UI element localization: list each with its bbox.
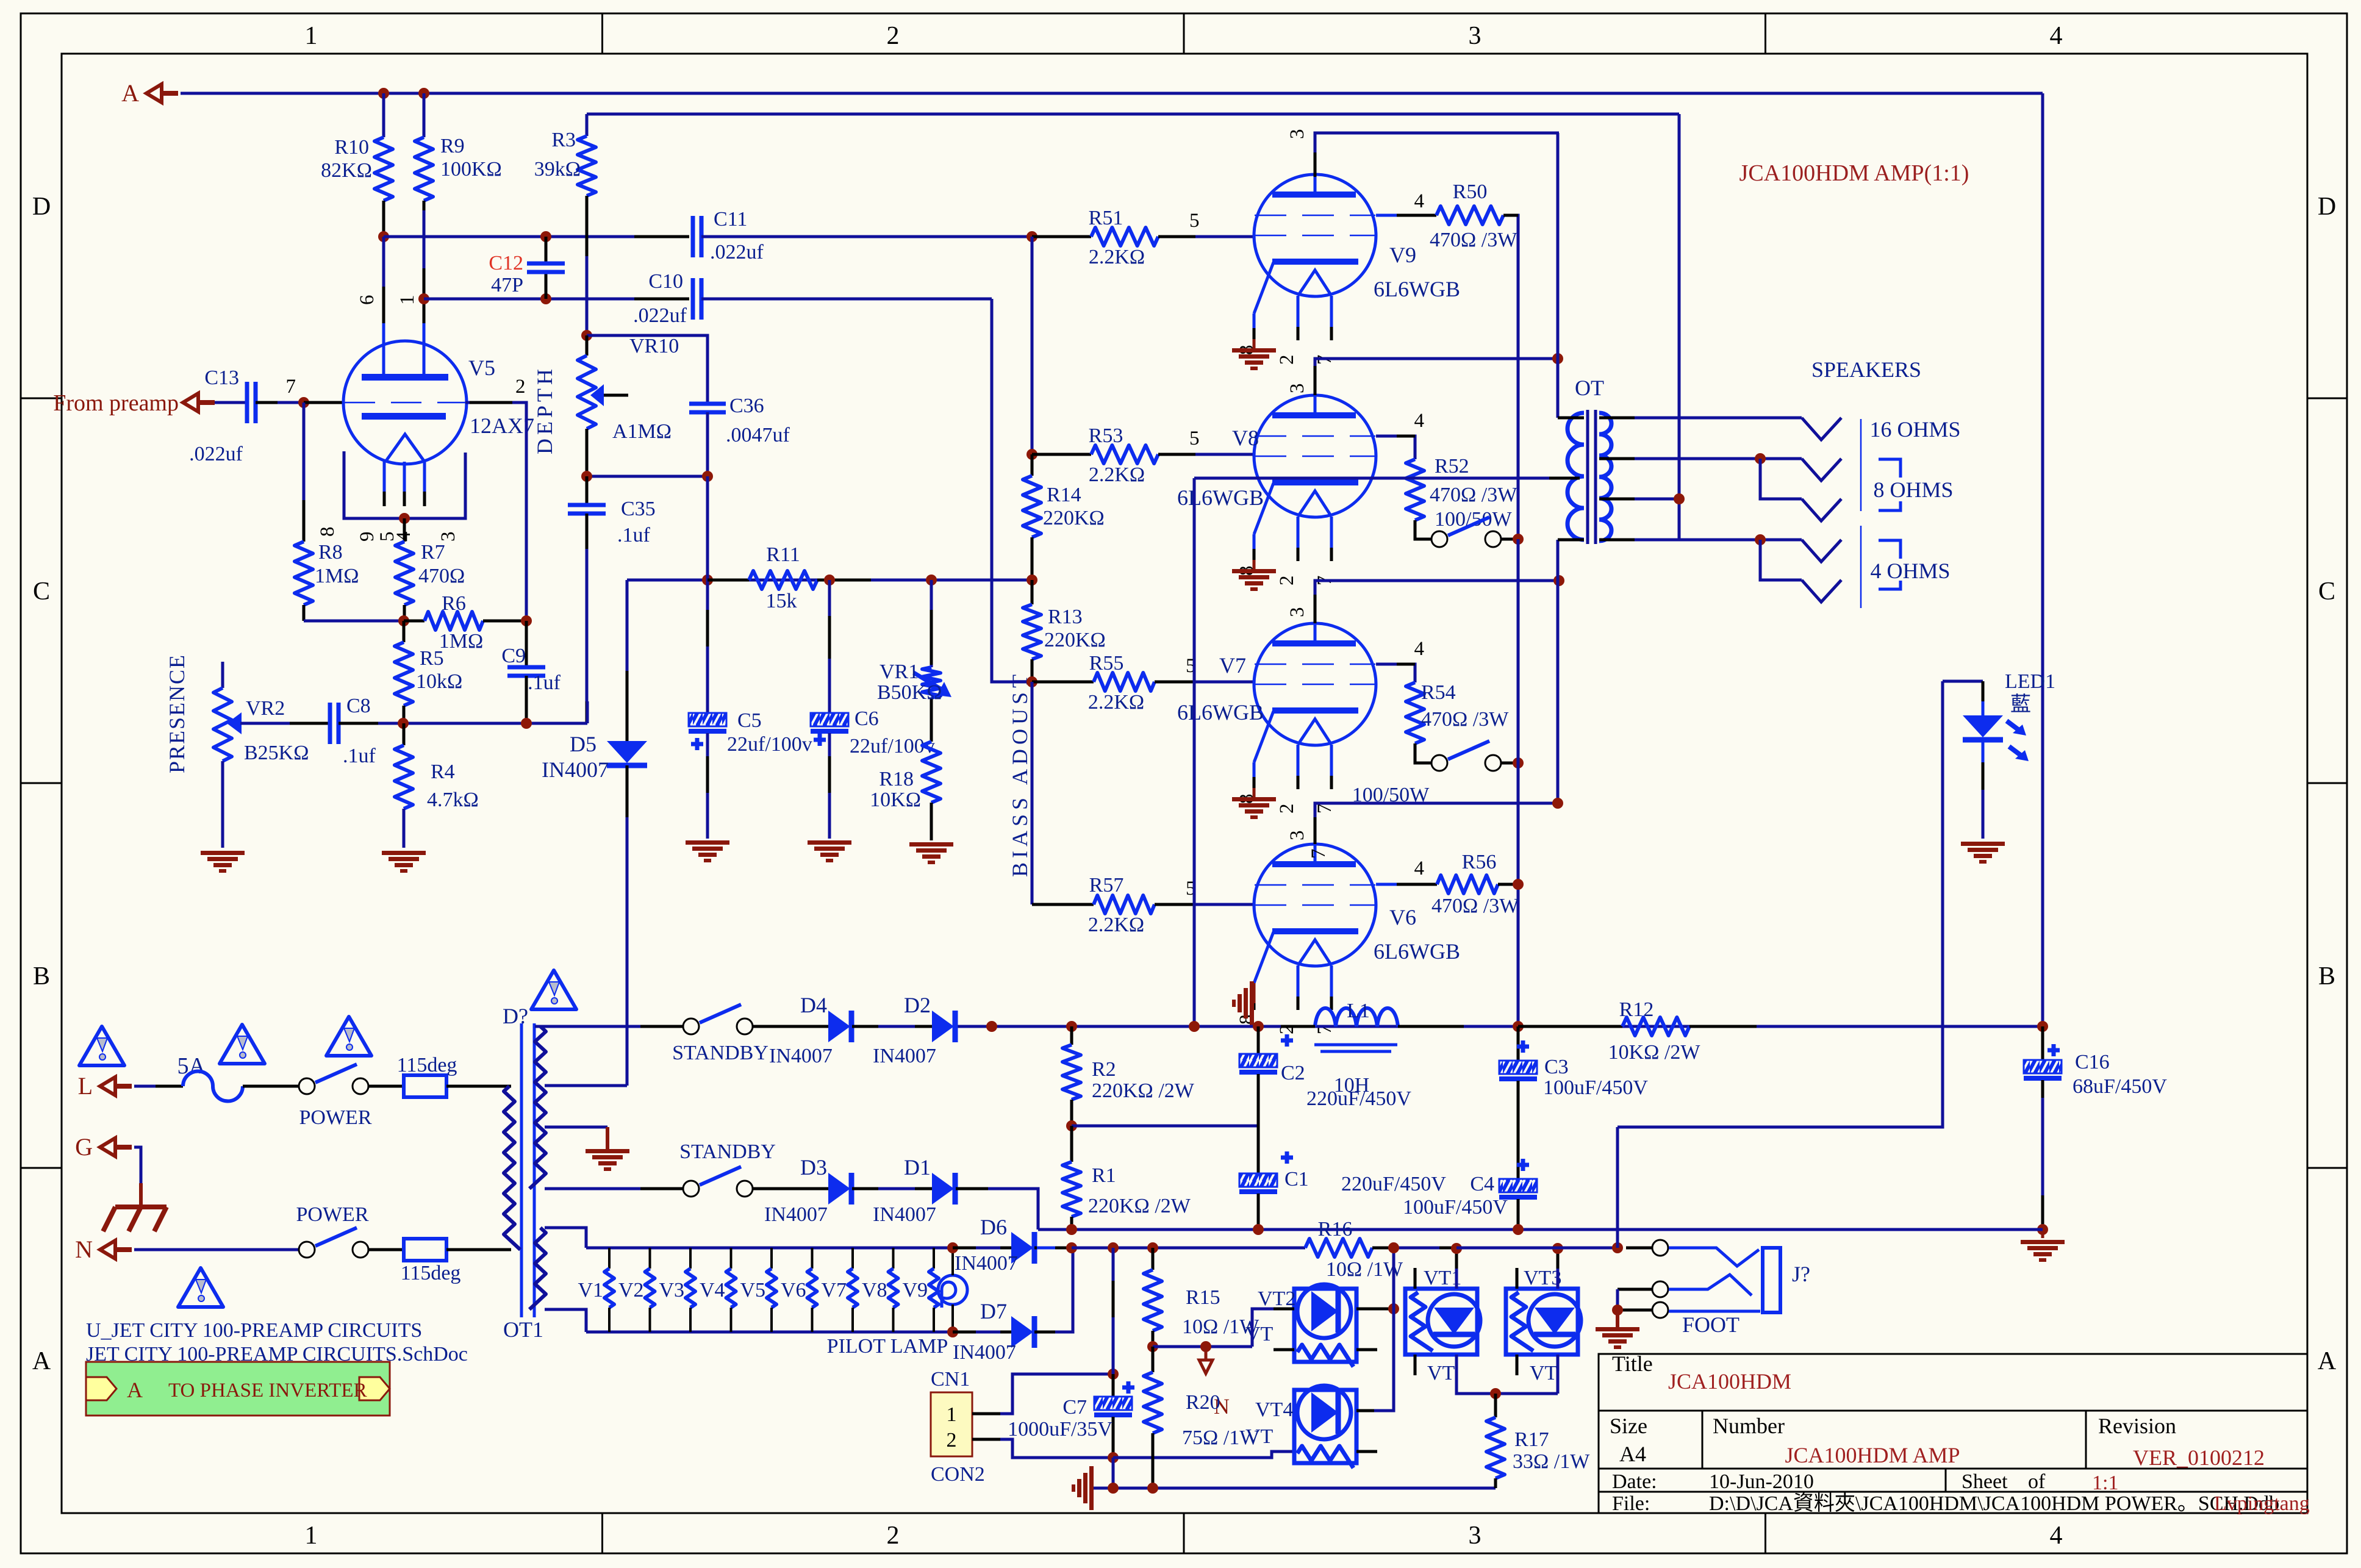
potentiometer VR1 bias	[930, 580, 933, 667]
bracket 8 ohms	[1879, 459, 1901, 478]
ground C6	[808, 840, 851, 845]
svg-text:DEPTH: DEPTH	[532, 365, 557, 454]
wire V9 screen pin4	[1376, 214, 1436, 217]
wire R8 bottom	[304, 620, 404, 623]
wire G	[134, 1147, 141, 1183]
svg-text:2.2KΩ: 2.2KΩ	[1089, 246, 1145, 268]
capacitor C8	[328, 703, 332, 744]
svg-text:10KΩ /2W: 10KΩ /2W	[1608, 1041, 1701, 1064]
svg-text:VT4: VT4	[1255, 1398, 1293, 1421]
svg-text:1: 1	[305, 22, 318, 50]
wire VT3 stub TL	[1516, 1268, 1519, 1289]
thermal 115deg N	[404, 1239, 446, 1261]
node R55	[1026, 676, 1037, 687]
wire screen bus	[1517, 539, 1520, 1026]
node V6 plate bus	[1552, 798, 1563, 809]
optocoupler VT1	[1405, 1289, 1477, 1355]
resistor R5	[403, 621, 406, 642]
resistor R56	[1437, 875, 1498, 893]
wire N	[134, 1248, 299, 1251]
ground R18	[909, 842, 953, 847]
svg-text:2: 2	[1276, 576, 1298, 586]
wire LED drop	[1618, 681, 1943, 1127]
svg-text:R12: R12	[1619, 998, 1654, 1021]
svg-text:R14: R14	[1047, 484, 1081, 506]
node VR10 top	[581, 330, 592, 341]
svg-text:22uf/100v: 22uf/100v	[727, 733, 812, 756]
svg-text:File:: File:	[1612, 1492, 1650, 1515]
svg-text:C8: C8	[346, 695, 371, 717]
wire OT bottom bus	[1557, 540, 1560, 803]
foot jack J?	[1626, 1247, 1652, 1250]
junction A-R10	[378, 88, 389, 99]
svg-text:POWER: POWER	[299, 1106, 372, 1129]
node B+ C2	[1253, 1021, 1264, 1032]
svg-text:6L6WGB: 6L6WGB	[1374, 939, 1460, 964]
svg-text:R1: R1	[1092, 1164, 1116, 1187]
svg-text:R50: R50	[1453, 181, 1488, 203]
svg-text:N: N	[75, 1236, 93, 1263]
port N	[100, 1240, 115, 1259]
svg-text:3: 3	[437, 532, 459, 542]
heater resistor V8	[892, 1248, 895, 1269]
ground foot	[1616, 1310, 1619, 1327]
svg-text:D6: D6	[980, 1215, 1007, 1239]
svg-text:R7: R7	[421, 541, 445, 564]
svg-text:V2: V2	[618, 1279, 644, 1301]
node R5/C8	[398, 718, 409, 729]
svg-text:R57: R57	[1089, 874, 1124, 897]
svg-text:R55: R55	[1089, 652, 1124, 675]
wire OT sec pin2	[1599, 457, 1647, 460]
wire OT sec pin4	[1599, 539, 1647, 542]
node VT2 out	[1388, 1303, 1399, 1314]
svg-text:1: 1	[305, 1522, 318, 1550]
resistor R10	[382, 93, 385, 137]
node VR10 bottom	[581, 471, 592, 482]
svg-text:.022uf: .022uf	[633, 304, 687, 327]
wire V8 screen pin4	[1376, 436, 1415, 459]
node N ref	[1200, 1341, 1211, 1352]
optocoupler VT3	[1506, 1289, 1578, 1355]
svg-text:C12: C12	[489, 252, 523, 274]
warning triangle 4	[178, 1268, 223, 1307]
node B+ R2	[1066, 1021, 1077, 1032]
svg-text:V6: V6	[1389, 905, 1416, 929]
svg-text:B25KΩ: B25KΩ	[244, 742, 309, 764]
svg-text:Title: Title	[1612, 1351, 1653, 1376]
node VT1 top	[1451, 1243, 1462, 1254]
svg-text:D7: D7	[980, 1299, 1007, 1323]
svg-text:R6: R6	[442, 592, 466, 615]
port From preamp	[183, 393, 198, 412]
svg-text:R5: R5	[420, 647, 444, 670]
svg-text:1000uF/35V: 1000uF/35V	[1008, 1418, 1112, 1441]
svg-text:470Ω /3W: 470Ω /3W	[1430, 229, 1517, 251]
svg-text:R20: R20	[1186, 1391, 1220, 1414]
earth ground G	[115, 1205, 167, 1209]
tube V8 6L6WGB	[1254, 395, 1376, 517]
svg-text:A4: A4	[1619, 1442, 1646, 1466]
wire center tap drop	[1193, 478, 1196, 1026]
resistor R6	[404, 620, 425, 623]
svg-text:100/50W: 100/50W	[1435, 508, 1512, 531]
wire heater top tap	[545, 1228, 586, 1248]
svg-text:D?: D?	[503, 1004, 528, 1028]
svg-text:VR2: VR2	[246, 697, 285, 720]
svg-text:10kΩ: 10kΩ	[416, 670, 462, 693]
jack 4 ohms B	[1802, 580, 1841, 602]
tube V5 12AX7	[343, 341, 467, 464]
V5 base box	[344, 451, 465, 518]
wire VT2 right low stub	[1356, 1348, 1377, 1351]
svg-text:1: 1	[947, 1403, 957, 1426]
wire VT3 bottom	[1557, 1355, 1560, 1394]
capacitor C3	[1517, 1026, 1520, 1061]
resistor R14	[1031, 454, 1034, 476]
node C7 mid	[1108, 1369, 1119, 1380]
capacitor C36	[689, 402, 726, 406]
svg-text:C1: C1	[1284, 1168, 1309, 1190]
node V8/V9 plates	[1552, 353, 1563, 364]
wire dc bus	[1072, 1247, 1305, 1250]
resistor R11	[708, 579, 749, 582]
resistor R9	[423, 93, 426, 137]
capacitor C11	[691, 216, 695, 257]
svg-text:V1: V1	[578, 1279, 603, 1301]
ground V8	[1253, 560, 1256, 569]
svg-text:Sheet: Sheet	[1962, 1470, 2008, 1493]
resistor R3	[586, 114, 589, 136]
node C16 bottom	[2037, 1224, 2048, 1235]
wire HT bottom tap	[545, 1187, 683, 1190]
wire foot sw common	[1618, 1288, 1652, 1291]
svg-text:D: D	[32, 193, 51, 221]
ground LED1	[1961, 842, 2005, 846]
capacitor C7	[1112, 1248, 1115, 1374]
svg-text:5: 5	[1189, 428, 1200, 449]
svg-text:U_JET CITY 100-PREAMP CIRCUITS: U_JET CITY 100-PREAMP CIRCUITS	[86, 1319, 422, 1342]
svg-text:V8: V8	[1232, 426, 1259, 450]
svg-text:藍: 藍	[2010, 693, 2031, 716]
heater resistor V4	[730, 1248, 733, 1269]
svg-text:68uF/450V: 68uF/450V	[2073, 1075, 2167, 1098]
wire V6 plate	[1315, 803, 1558, 844]
wire VT3 stub BL	[1516, 1355, 1519, 1375]
svg-text:C9: C9	[501, 645, 526, 667]
svg-text:220uF/450V: 220uF/450V	[1341, 1173, 1446, 1195]
node VT bus top	[1388, 1242, 1399, 1253]
node R15/R20	[1147, 1341, 1158, 1352]
pilot lamp	[938, 1275, 967, 1305]
node C6 top	[824, 575, 835, 585]
svg-text:A: A	[127, 1378, 143, 1402]
svg-text:Date:: Date:	[1612, 1470, 1657, 1493]
svg-text:Size: Size	[1610, 1414, 1647, 1438]
svg-text:1: 1	[396, 295, 418, 306]
svg-text:16 OHMS: 16 OHMS	[1869, 417, 1960, 442]
svg-text:R2: R2	[1092, 1058, 1116, 1081]
node switch V7	[1513, 757, 1524, 768]
wire OT sec pin3	[1599, 498, 1647, 501]
svg-text:CN1: CN1	[931, 1368, 970, 1391]
svg-text:3: 3	[1286, 607, 1308, 618]
wire V7 plate	[1315, 581, 1559, 623]
svg-text:FOOT: FOOT	[1682, 1312, 1739, 1337]
svg-text:C10: C10	[648, 270, 683, 293]
jack 8 ohms A	[1802, 459, 1841, 481]
svg-text:R9: R9	[440, 135, 465, 157]
wire R1 row	[1072, 1125, 1258, 1128]
wire 8ohm jog	[1760, 459, 1802, 499]
svg-text:STANDBY: STANDBY	[672, 1042, 768, 1064]
svg-text:IN4007: IN4007	[873, 1045, 936, 1067]
heater resistor V2	[649, 1248, 651, 1269]
resistor R13	[1031, 580, 1034, 604]
svg-text:OT: OT	[1575, 376, 1604, 400]
svg-text:4 OHMS: 4 OHMS	[1870, 559, 1950, 583]
svg-text:R16: R16	[1318, 1218, 1353, 1240]
node V5 pin6	[378, 231, 389, 242]
svg-text:1MΩ: 1MΩ	[315, 565, 359, 587]
svg-text:12AX7: 12AX7	[470, 413, 534, 438]
wire net A top	[181, 92, 2043, 95]
resistor R52	[1406, 459, 1424, 520]
heater resistor V1	[608, 1248, 611, 1269]
resistor R53	[1032, 453, 1091, 456]
warning triangle 1	[79, 1026, 124, 1065]
diode D6	[953, 1247, 1011, 1250]
svg-text:2: 2	[1276, 804, 1298, 814]
svg-text:2: 2	[515, 376, 526, 398]
capacitor C5	[706, 476, 709, 580]
jack 16 ohms	[1802, 418, 1841, 440]
svg-text:9: 9	[356, 532, 378, 542]
svg-text:V7: V7	[1219, 653, 1246, 678]
svg-text:TO PHASE INVERTER: TO PHASE INVERTER	[168, 1380, 367, 1402]
svg-text:IN4007: IN4007	[953, 1341, 1016, 1364]
svg-text:10Ω /1W: 10Ω /1W	[1326, 1258, 1403, 1281]
node gnd C7	[1108, 1483, 1119, 1494]
diode D3	[828, 1173, 850, 1205]
svg-text:C11: C11	[714, 208, 747, 231]
node D6	[947, 1242, 958, 1253]
node R53	[1026, 449, 1037, 460]
svg-text:8 OHMS: 8 OHMS	[1873, 478, 1953, 502]
ground V6 rotated	[1253, 983, 1256, 1003]
wire foot feed drop	[1616, 1127, 1619, 1248]
resistor R12	[1518, 1025, 1622, 1028]
node switch V8	[1513, 534, 1524, 545]
title block frame	[1599, 1354, 2307, 1513]
resistor R57	[1032, 903, 1094, 906]
optocoupler VT2	[1294, 1289, 1356, 1362]
svg-text:VT: VT	[1427, 1362, 1455, 1384]
wire D7 up	[1034, 1248, 1073, 1332]
wire OT sec pin1	[1599, 417, 1647, 420]
svg-text:470Ω /3W: 470Ω /3W	[1431, 895, 1519, 917]
svg-text:VT2: VT2	[1258, 1287, 1295, 1310]
svg-text:J?: J?	[1792, 1262, 1810, 1286]
svg-text:L: L	[78, 1072, 93, 1100]
bracket 4 ohms	[1879, 540, 1901, 559]
heater resistor V7	[851, 1248, 854, 1269]
node R7/R6	[398, 615, 409, 626]
heater resistor V9	[933, 1248, 935, 1269]
svg-text:C: C	[2318, 578, 2335, 606]
warning triangle 2	[220, 1025, 265, 1064]
wire pin1 to V5	[423, 210, 426, 342]
svg-text:82KΩ: 82KΩ	[321, 159, 372, 182]
svg-text:2.2KΩ: 2.2KΩ	[1089, 464, 1145, 486]
node B+ C3	[1513, 1021, 1524, 1032]
node VT3 top	[1552, 1243, 1563, 1254]
svg-text:7: 7	[1308, 849, 1330, 859]
svg-text:5A: 5A	[177, 1053, 206, 1079]
node V5 pin1	[418, 293, 429, 304]
wire V7 screen pin4	[1376, 664, 1415, 682]
svg-text:2: 2	[887, 1522, 900, 1550]
svg-text:.022uf: .022uf	[710, 241, 764, 263]
port A	[146, 84, 162, 102]
wire bias mid row	[1153, 1345, 1252, 1348]
svg-text:IN4007: IN4007	[764, 1203, 828, 1226]
svg-text:C4: C4	[1470, 1173, 1494, 1195]
vertical x1692	[1031, 237, 1034, 454]
capacitor C2	[1257, 1026, 1260, 1054]
switch POWER L	[299, 1078, 315, 1094]
svg-text:R51: R51	[1089, 207, 1123, 229]
svg-text:47P: 47P	[491, 274, 523, 296]
diode D2	[932, 1011, 954, 1042]
svg-text:R52: R52	[1435, 455, 1469, 478]
heater resistor V5	[770, 1248, 773, 1269]
svg-text:A: A	[32, 1347, 51, 1375]
svg-text:2.2KΩ: 2.2KΩ	[1088, 691, 1144, 714]
svg-text:VER_0100212: VER_0100212	[2133, 1445, 2265, 1470]
resistor R17	[1494, 1394, 1497, 1417]
warning triangle 3	[326, 1017, 371, 1056]
wire CN1 pin1	[972, 1374, 1113, 1414]
node R6/C9	[521, 615, 532, 626]
vertical to R57	[1031, 682, 1034, 904]
node sec pin3	[1674, 493, 1685, 504]
resistor R8	[303, 403, 306, 542]
svg-text:39kΩ: 39kΩ	[534, 158, 581, 181]
svg-text:V4: V4	[700, 1279, 725, 1301]
svg-text:R3: R3	[551, 129, 576, 151]
svg-text:B: B	[2318, 962, 2335, 990]
junction A-R9	[418, 88, 429, 99]
resistor R7	[403, 518, 406, 542]
svg-text:C2: C2	[1281, 1062, 1305, 1084]
svg-text:JCA100HDM AMP: JCA100HDM AMP	[1785, 1443, 1960, 1467]
jack 4 ohms A	[1802, 540, 1841, 562]
wire V9 plate	[1315, 133, 1559, 174]
svg-text:BIASS ADOUST: BIASS ADOUST	[1008, 670, 1032, 877]
svg-text:PILOT LAMP: PILOT LAMP	[827, 1335, 948, 1358]
svg-text:Revision: Revision	[2098, 1414, 2176, 1438]
node C36 bottom	[702, 471, 713, 482]
svg-text:4: 4	[1414, 190, 1425, 212]
resistor R55	[1032, 681, 1094, 684]
LED1 blue	[1943, 680, 1983, 683]
wire grid to V5	[304, 401, 343, 404]
svg-text:3: 3	[1286, 831, 1308, 841]
switch V7 100/50W	[1501, 762, 1518, 765]
svg-text:R13: R13	[1048, 606, 1083, 628]
wire 4ohm feed	[1678, 114, 1681, 540]
node B+ x1626	[986, 1021, 997, 1032]
svg-text:C35: C35	[621, 498, 656, 520]
wire C10 row	[424, 298, 689, 301]
resistor R20	[1152, 1347, 1155, 1372]
svg-text:Number: Number	[1713, 1414, 1785, 1438]
svg-text:L1: L1	[1347, 1000, 1370, 1022]
svg-text:IN4007: IN4007	[769, 1045, 833, 1067]
svg-text:R8: R8	[318, 541, 343, 564]
svg-text:V5: V5	[740, 1279, 765, 1301]
node V7 plate bus	[1553, 575, 1564, 586]
wire V5 pin2	[465, 403, 526, 621]
svg-text:A1MΩ: A1MΩ	[612, 420, 672, 443]
node C9/C8	[521, 718, 532, 729]
node R2/R1	[1066, 1120, 1077, 1131]
wire VT4 right low stub	[1356, 1450, 1377, 1453]
svg-text:2.2KΩ: 2.2KΩ	[1088, 914, 1144, 936]
svg-text:of: of	[2028, 1470, 2046, 1493]
resistor R4	[403, 723, 406, 745]
node gnd R20	[1147, 1483, 1158, 1494]
svg-text:IN4007: IN4007	[955, 1252, 1018, 1275]
svg-text:.1uf: .1uf	[343, 745, 376, 767]
diode D1	[932, 1173, 954, 1205]
wire VR10 loop bottom	[587, 475, 708, 478]
ground C16	[2041, 1230, 2044, 1238]
svg-text:.022uf: .022uf	[189, 443, 243, 465]
svg-text:POWER: POWER	[296, 1203, 369, 1226]
svg-text:R4: R4	[431, 761, 455, 783]
wire plate bus to OT	[1557, 133, 1560, 418]
ground HT CT	[586, 1149, 629, 1153]
diode D4	[828, 1011, 850, 1042]
capacitor C9	[525, 621, 528, 667]
svg-text:B50KΩ: B50KΩ	[877, 681, 942, 704]
wire net B+ top	[587, 113, 1679, 116]
svg-text:115deg: 115deg	[397, 1054, 457, 1076]
svg-text:220KΩ /2W: 220KΩ /2W	[1092, 1079, 1195, 1102]
resistor R16	[1305, 1239, 1372, 1257]
svg-text:SPEAKERS: SPEAKERS	[1811, 357, 1921, 382]
svg-text:V3: V3	[659, 1279, 684, 1301]
capacitor C35	[586, 476, 589, 505]
svg-text:1MΩ: 1MΩ	[439, 630, 484, 653]
svg-text:VR1: VR1	[880, 660, 919, 683]
wire D1 out	[956, 1189, 1038, 1230]
svg-text:R53: R53	[1089, 424, 1123, 447]
svg-text:R54: R54	[1421, 681, 1456, 704]
svg-text:2: 2	[947, 1429, 957, 1452]
ground R4	[382, 851, 426, 855]
wire pin2 to VT4	[1113, 1452, 1294, 1458]
wire VT2 right	[1356, 1308, 1394, 1311]
resistor R54	[1406, 682, 1424, 743]
switch STANDBY lower	[753, 1187, 828, 1190]
svg-text:R17: R17	[1514, 1428, 1549, 1451]
node R51	[1026, 231, 1037, 242]
resistor R18	[922, 742, 940, 803]
svg-text:4: 4	[2050, 22, 2063, 50]
